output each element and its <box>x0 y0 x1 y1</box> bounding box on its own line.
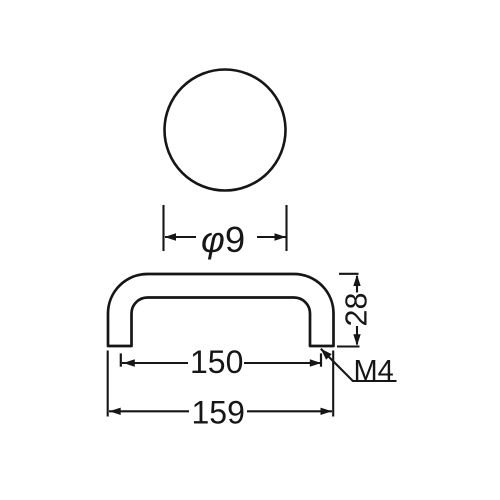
φ9 extension line right <box>285 205 287 251</box>
159 extension line right <box>332 351 334 417</box>
svg-text:φ9: φ9 <box>201 219 245 260</box>
150 dimension line with outward arrows <box>122 359 321 366</box>
159 dimension line with outward arrows <box>109 408 332 415</box>
φ9 extension line left <box>162 205 164 251</box>
M4 leader line with arrow <box>321 349 397 381</box>
28 bottom extension line <box>337 345 360 347</box>
svg-text:159: 159 <box>192 395 245 431</box>
svg-text:M4: M4 <box>354 355 394 387</box>
svg-text:150: 150 <box>190 344 243 380</box>
handle side-view outline <box>108 274 334 346</box>
svg-text:28: 28 <box>339 293 373 327</box>
159 extension line left <box>107 351 109 417</box>
150 extension tick left <box>120 353 122 366</box>
28 top extension line <box>339 273 359 275</box>
28 dimension line with outward arrows <box>353 275 360 346</box>
150 extension tick right <box>320 353 322 366</box>
φ9 dimension line with outward arrows <box>165 233 287 240</box>
handle cross-section circle (φ9 end view) <box>165 70 286 191</box>
